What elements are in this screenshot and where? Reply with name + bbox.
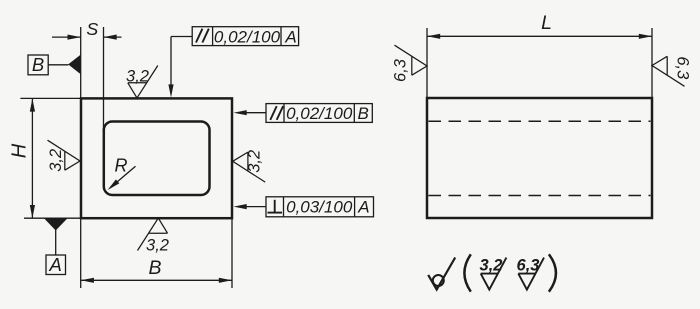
svg-text:B: B xyxy=(358,104,369,123)
svg-text:6,3: 6,3 xyxy=(392,58,410,82)
svg-text:A: A xyxy=(49,254,62,275)
svg-text:3,2: 3,2 xyxy=(47,149,65,172)
svg-text:3,2: 3,2 xyxy=(146,236,169,254)
svg-text:B: B xyxy=(32,54,44,75)
svg-text:0,02/100: 0,02/100 xyxy=(214,28,281,47)
svg-text:B: B xyxy=(148,257,161,279)
svg-text:6,3: 6,3 xyxy=(674,56,692,80)
svg-text:L: L xyxy=(541,12,552,34)
svg-text:S: S xyxy=(86,19,98,39)
svg-text:3,2: 3,2 xyxy=(480,257,503,275)
svg-text:A: A xyxy=(357,198,369,217)
svg-text:3,2: 3,2 xyxy=(126,68,149,86)
svg-text:3,2: 3,2 xyxy=(246,150,264,173)
svg-text:A: A xyxy=(284,28,296,47)
svg-text:H: H xyxy=(9,143,31,158)
svg-text:6,3: 6,3 xyxy=(517,257,540,275)
svg-text:R: R xyxy=(115,156,128,176)
svg-text:0,02/100: 0,02/100 xyxy=(286,104,353,123)
svg-text:0,03/100: 0,03/100 xyxy=(286,198,353,217)
